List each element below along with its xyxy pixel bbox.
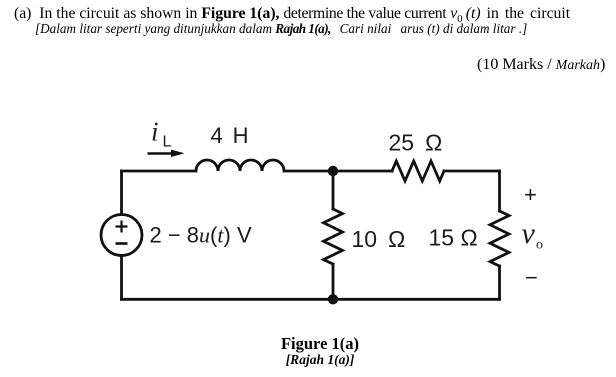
caption Figure 1(a) [0,334,616,354]
marks line [477,56,605,74]
svg-text:+: + [524,182,537,207]
wire left lower (source to bottom) [120,256,123,300]
wire right upper [498,171,501,211]
svg-text:15 Ω: 15 Ω [429,225,478,251]
wire top-right [444,170,500,173]
resistor R2 10ohm [324,209,343,264]
wire right lower [498,266,501,299]
node A (top junction) [328,166,338,176]
svg-text:i: i [151,117,159,147]
voltage source minus sign [116,242,128,245]
svg-text:v: v [522,217,536,250]
resistor R1 25ohm [392,161,444,181]
voltage source V1 circle [101,215,142,256]
caption Rajah 1(a) [0,352,616,368]
svg-text:25 Ω: 25 Ω [389,130,443,156]
node B (bottom junction) [328,294,338,304]
wire left upper (top to source) [120,171,123,215]
voltage source plus sign [116,221,128,244]
wire top-left horizontal [122,170,197,173]
inductor L1 4H [196,160,284,171]
svg-text:L: L [163,134,172,151]
problem statement line 2 (Malay italic) [35,21,527,37]
svg-text:−: − [525,265,538,290]
wire node A to resistor 25 [333,170,392,173]
svg-text:o: o [536,238,543,253]
resistor R3 15ohm [490,211,509,266]
svg-text:2 − 8u(t) V: 2 − 8u(t) V [150,222,252,247]
wire top-middle (inductor to node A) [284,170,333,173]
current arrow iL [148,150,185,157]
svg-text:10 Ω: 10 Ω [352,226,406,252]
wire middle lower (resistor 10 to node B) [332,264,335,299]
wire middle upper (node A to resistor 10) [332,171,335,209]
svg-text:4 H: 4 H [211,123,249,148]
wire bottom [122,298,500,301]
problem statement line 1 [14,5,570,25]
